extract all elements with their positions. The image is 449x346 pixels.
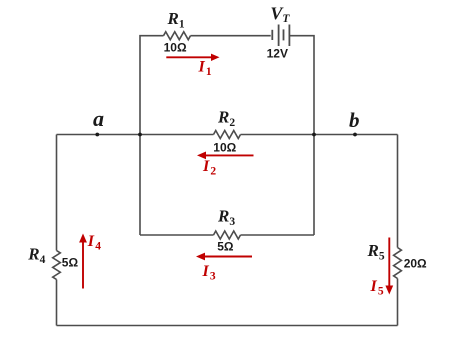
wire: left outer vertical upper (node a column down to R4): [56, 135, 58, 251]
current arrow I3: [196, 253, 252, 261]
wire: top-left corner and left inner vertical (top loop down to R3 row): [140, 36, 164, 235]
current arrow I1: [166, 54, 219, 61]
svg-text:VT: VT: [270, 4, 290, 25]
svg-text:10Ω: 10Ω: [164, 40, 187, 54]
wire: bottom row: [57, 325, 398, 327]
resistor R5 zigzag: [394, 248, 402, 279]
current arrow I2: [197, 152, 254, 160]
resistor R3 zigzag: [214, 231, 241, 239]
svg-text:10Ω: 10Ω: [213, 140, 236, 154]
svg-text:I5: I5: [370, 278, 384, 297]
wire: middle row left segment (outer left to R2): [57, 134, 214, 136]
svg-text:I3: I3: [202, 263, 216, 282]
svg-text:12V: 12V: [267, 47, 288, 61]
svg-text:R4: R4: [27, 244, 45, 266]
svg-text:R3: R3: [217, 207, 235, 229]
resistor R1 zigzag: [164, 32, 191, 40]
svg-text:R2: R2: [217, 108, 235, 130]
wire: top row from R1 to battery: [191, 35, 271, 37]
current arrow I5: [385, 238, 393, 295]
wire: R3 row right segment: [241, 234, 315, 236]
junction dot left (x=140): [138, 133, 142, 137]
wire: middle row right segment (R2 to outer right): [241, 134, 398, 136]
wire: battery to top-right corner and right inner vertical (down to R3 row): [289, 36, 314, 235]
junction dot right (x=314): [312, 133, 316, 137]
battery VT plates: [272, 25, 289, 47]
resistor R2 zigzag: [214, 131, 241, 139]
svg-text:a: a: [93, 106, 104, 131]
svg-text:R1: R1: [167, 9, 185, 31]
wire: right outer vertical upper (node b column down to R5): [397, 135, 399, 248]
svg-text:5Ω: 5Ω: [62, 256, 79, 270]
node b dot: [353, 133, 357, 137]
current arrow I4: [79, 234, 87, 289]
svg-text:b: b: [349, 108, 360, 132]
svg-text:I4: I4: [87, 233, 101, 252]
wire: R3 row left segment: [140, 234, 214, 236]
svg-text:20Ω: 20Ω: [404, 257, 427, 271]
svg-text:I2: I2: [202, 158, 216, 177]
svg-text:5Ω: 5Ω: [217, 240, 234, 254]
wire: left outer vertical lower (R4 to bottom): [56, 280, 58, 326]
svg-text:R5: R5: [367, 241, 385, 263]
wire: right outer vertical lower (R5 to bottom): [397, 279, 399, 326]
node a dot: [95, 133, 99, 137]
svg-text:I1: I1: [198, 59, 212, 78]
resistor R4 zigzag: [53, 251, 61, 280]
